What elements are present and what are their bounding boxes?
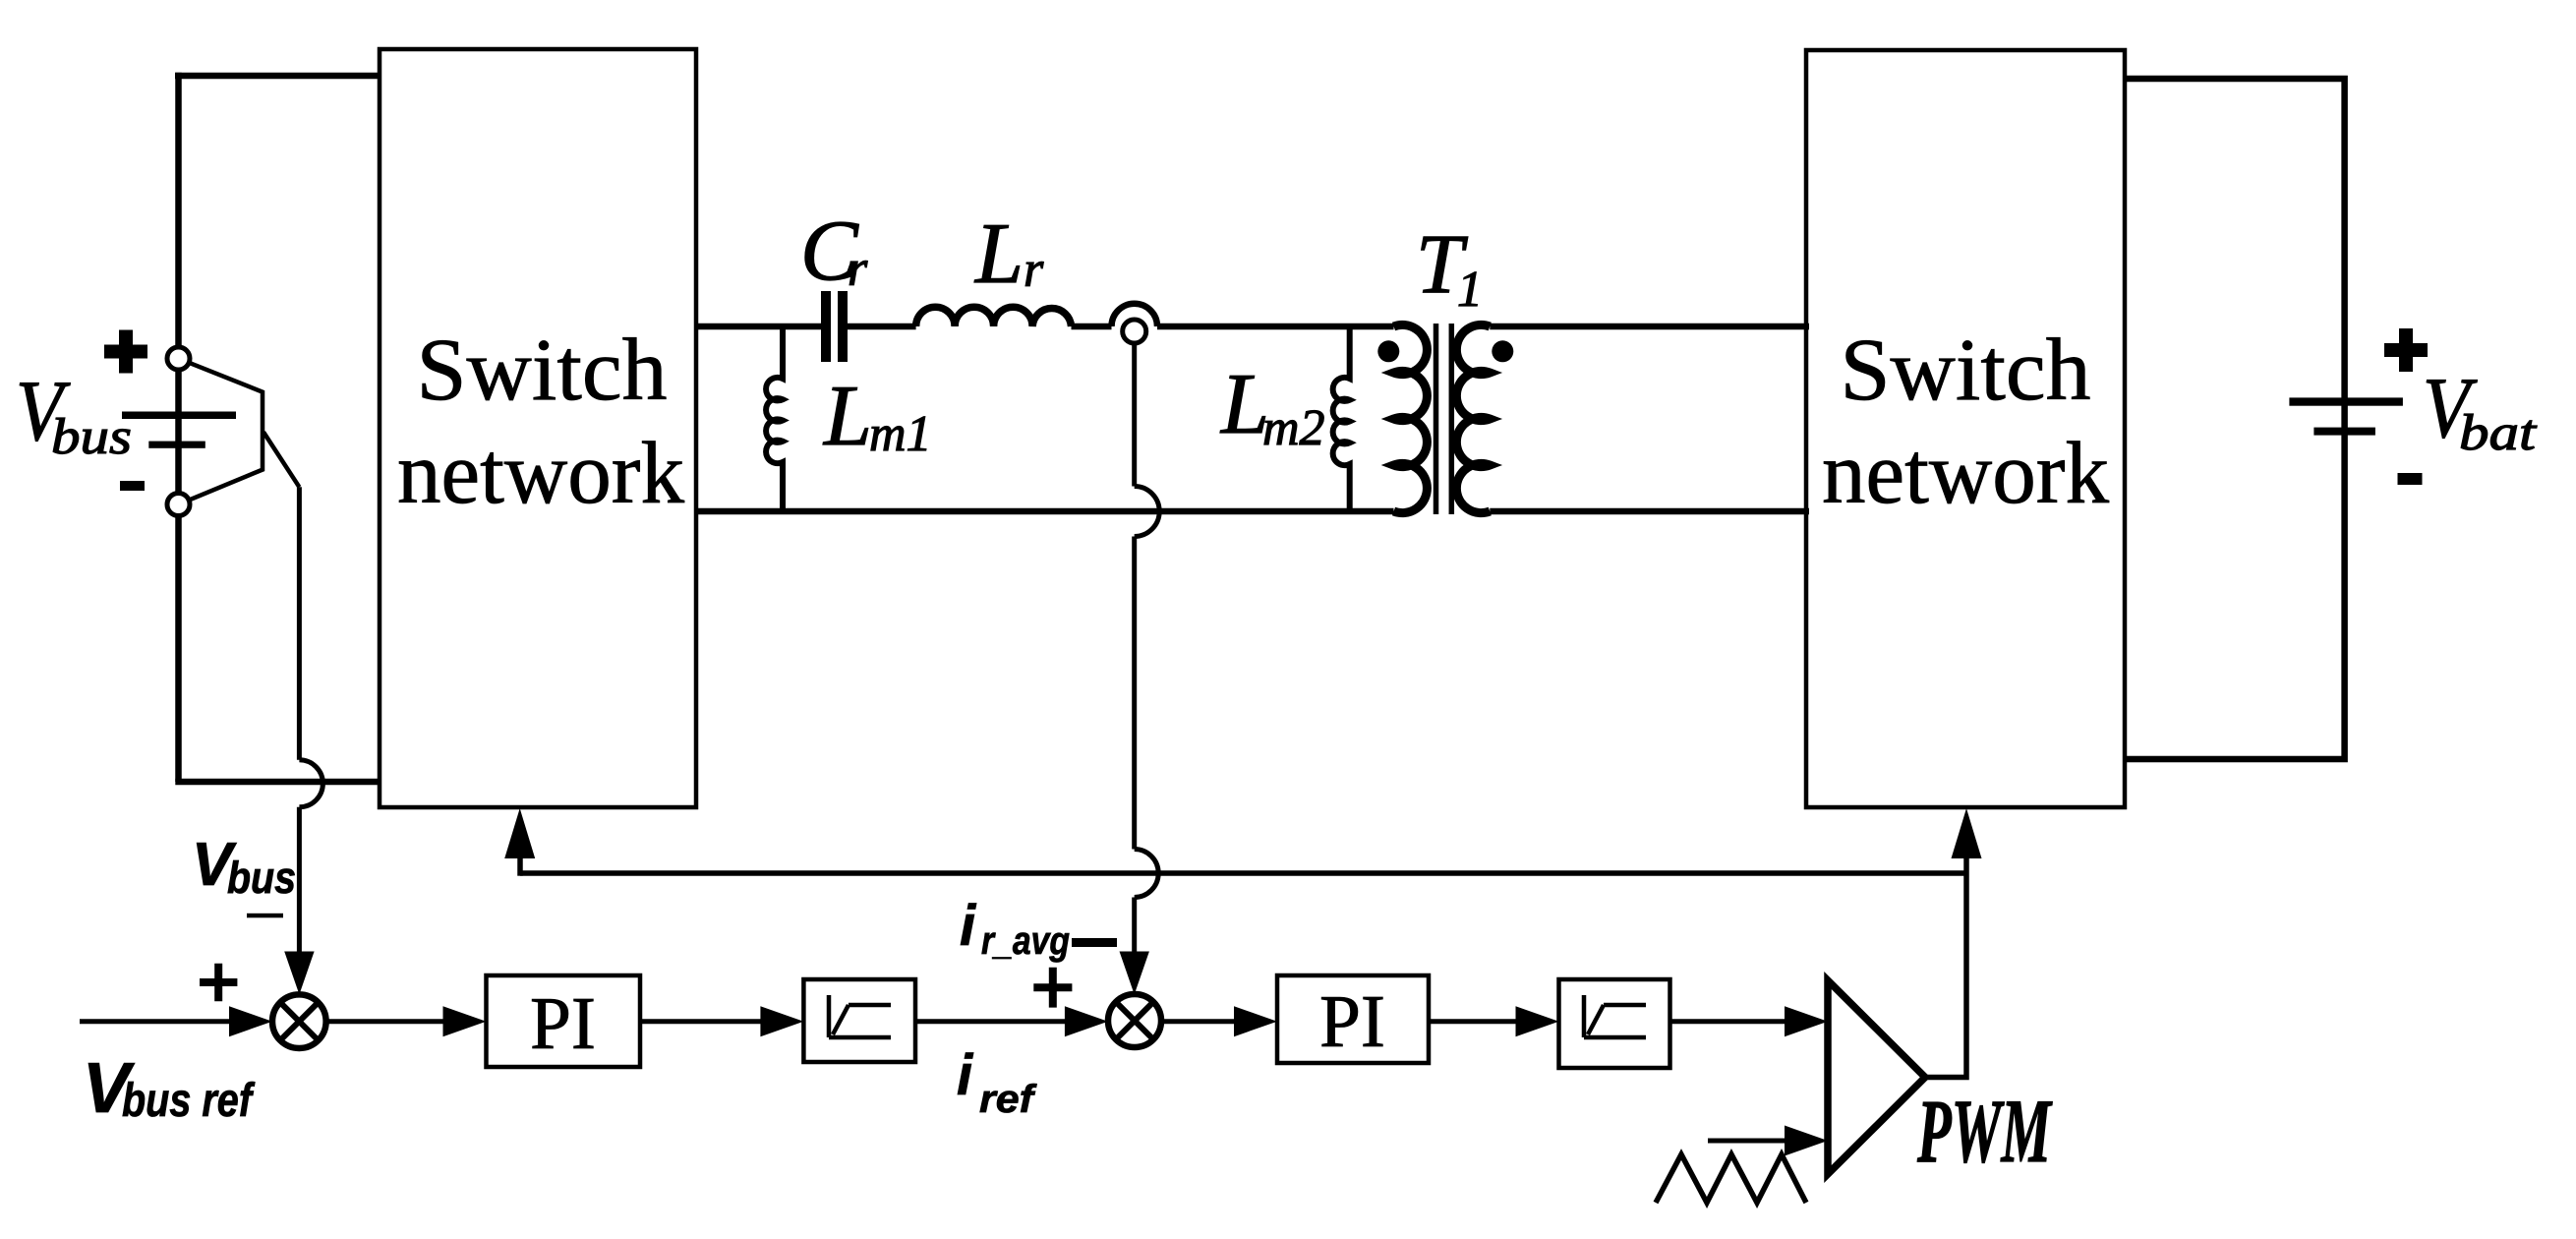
current sensor circle bbox=[1123, 320, 1146, 343]
feedback stub left bbox=[517, 858, 523, 876]
probe terminal circle bottom bbox=[167, 494, 190, 516]
PWM output wire bbox=[1925, 858, 1966, 1078]
label T1 bbox=[1416, 216, 1483, 318]
sawtooth input line bbox=[1708, 1139, 1788, 1144]
limiter block 2 bbox=[1559, 979, 1670, 1068]
minus sign at junction 1 bbox=[247, 914, 283, 918]
label Vbus feedback bbox=[192, 831, 296, 903]
minus sign at junction 2 bbox=[1072, 938, 1117, 947]
svg-text:Switch: Switch bbox=[1841, 322, 2091, 419]
ir_avg sense wire down bbox=[1132, 344, 1137, 487]
label Vbat bbox=[2423, 361, 2538, 461]
wire top-left from Vbus to left box bbox=[175, 73, 380, 80]
wire junction1 to PI1 bbox=[326, 1019, 447, 1024]
svg-text:r: r bbox=[1024, 242, 1044, 298]
tank top wire segments bbox=[696, 324, 1809, 330]
current sensor hop on top wire bbox=[1112, 304, 1158, 326]
limiter block 1 bbox=[803, 979, 915, 1062]
svg-text:bus: bus bbox=[227, 853, 296, 903]
battery Vbus plus sign bbox=[104, 330, 147, 374]
transformer T1 core bbox=[1436, 324, 1452, 514]
svg-text:ref: ref bbox=[979, 1078, 1037, 1121]
label Lr bbox=[973, 206, 1044, 302]
label Lm1 bbox=[822, 369, 932, 464]
svg-text:m2: m2 bbox=[1262, 400, 1325, 456]
battery Vbat minus sign bbox=[2398, 473, 2423, 485]
wire right box to Vbat bbox=[2125, 79, 2345, 759]
probe terminal circle top bbox=[167, 347, 190, 370]
svg-text:r: r bbox=[848, 241, 868, 297]
inductor Lr bbox=[916, 307, 1072, 326]
transformer T1 secondary winding bbox=[1456, 324, 1490, 512]
svg-text:PI: PI bbox=[530, 982, 596, 1065]
arrowhead into junction 1 left bbox=[229, 1006, 272, 1036]
summing junction 1 bbox=[272, 994, 326, 1048]
battery Vbus plates bbox=[122, 412, 236, 448]
voltage probe polygon bbox=[189, 363, 299, 501]
arrowhead into PI1 bbox=[443, 1006, 487, 1036]
wire left battery vertical bbox=[175, 73, 182, 782]
plus sign at junction 2 bbox=[1033, 968, 1072, 1008]
wire limiter1 to junction2 bbox=[915, 1019, 1069, 1024]
svg-text:L: L bbox=[822, 369, 872, 464]
svg-text:PI: PI bbox=[1319, 980, 1385, 1063]
inductor Lm1 bbox=[766, 326, 783, 511]
hop over feedback wire bbox=[1135, 849, 1159, 897]
Vbus sense wire down bbox=[297, 487, 302, 760]
transformer T1 primary winding bbox=[1394, 324, 1428, 512]
right switch network box U2 bbox=[1806, 50, 2125, 807]
arrowhead into junction 2 bbox=[1120, 952, 1149, 995]
svg-text:PWM: PWM bbox=[1916, 1081, 2053, 1181]
arrowhead into comparator bbox=[1785, 1006, 1828, 1036]
battery Vbus minus sign bbox=[120, 481, 145, 491]
battery Vbat plates bbox=[2289, 397, 2403, 435]
arrowhead into junction 1 bbox=[284, 952, 314, 995]
PI controller 2 bbox=[1277, 975, 1429, 1063]
arrowhead into left box bbox=[504, 808, 535, 858]
svg-text:r_avg: r_avg bbox=[981, 919, 1070, 963]
transformer primary dot bbox=[1377, 340, 1399, 362]
summing junction 2 bbox=[1108, 994, 1161, 1047]
battery Vbat plus sign bbox=[2384, 328, 2428, 372]
plus sign at junction 1 bbox=[200, 964, 237, 1002]
tank bottom wire bbox=[696, 508, 1809, 515]
svg-text:bus: bus bbox=[51, 409, 132, 465]
wire bottom-left from Vbus to left box bbox=[175, 779, 380, 786]
svg-text:Switch: Switch bbox=[417, 322, 668, 419]
label iref bbox=[957, 1043, 1037, 1121]
capacitor Cr bbox=[821, 291, 848, 362]
svg-text:bat: bat bbox=[2459, 405, 2538, 461]
arrowhead into right box bbox=[1952, 808, 1982, 858]
label Cr bbox=[800, 204, 868, 299]
PI controller 1 bbox=[487, 975, 641, 1067]
ir_avg sense wire mid bbox=[1132, 537, 1137, 850]
arrowhead into limiter2 bbox=[1516, 1006, 1559, 1036]
arrowhead into junction 2 left bbox=[1065, 1006, 1108, 1036]
Vbus sense wire to summing junction bbox=[297, 807, 302, 953]
wire junction2 to PI2 bbox=[1161, 1019, 1238, 1024]
label Vbus battery bbox=[16, 364, 132, 465]
label ir_avg bbox=[960, 894, 1070, 963]
arrowhead sawtooth into comparator bbox=[1785, 1126, 1828, 1156]
transformer secondary dot bbox=[1492, 340, 1513, 362]
arrowhead into limiter1 bbox=[760, 1006, 803, 1036]
wire PI1 to limiter1 bbox=[640, 1019, 765, 1024]
ir_avg sense wire to junction 2 bbox=[1132, 898, 1137, 954]
label Vbus ref bbox=[83, 1049, 255, 1128]
wire PI2 to limiter2 bbox=[1429, 1019, 1519, 1024]
svg-text:bus ref: bus ref bbox=[122, 1075, 255, 1127]
label Lm2 bbox=[1219, 357, 1325, 456]
svg-text:m1: m1 bbox=[869, 406, 932, 462]
left switch network box U1 bbox=[380, 49, 696, 807]
svg-text:network: network bbox=[397, 425, 684, 522]
hop over tank bottom wire bbox=[1135, 487, 1160, 537]
sawtooth carrier wave bbox=[1656, 1154, 1806, 1203]
svg-text:L: L bbox=[973, 206, 1024, 302]
arrowhead into PI2 bbox=[1234, 1006, 1277, 1036]
inductor Lm2 bbox=[1333, 326, 1350, 511]
PWM comparator triangle bbox=[1828, 980, 1925, 1174]
svg-text:i: i bbox=[960, 894, 977, 958]
svg-text:i: i bbox=[957, 1043, 974, 1107]
wire limiter2 to comparator bbox=[1670, 1019, 1789, 1024]
svg-text:1: 1 bbox=[1457, 262, 1483, 318]
feedback wire from PWM to boxes bbox=[520, 870, 1966, 876]
wire hop over bottom wire bbox=[299, 760, 322, 807]
control input line Vbus ref bbox=[80, 1019, 236, 1024]
svg-text:network: network bbox=[1822, 425, 2109, 522]
